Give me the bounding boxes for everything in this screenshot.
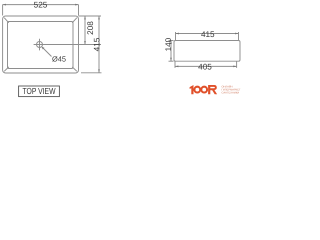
arrow 140 bottom	[170, 58, 172, 61]
svg-text:Ø45: Ø45	[52, 55, 66, 64]
top extension line to right dims	[79, 15, 102, 17]
arrow 415 bottom (left view)	[98, 69, 100, 72]
logo small text lines	[222, 85, 241, 95]
dim 140 top extension	[169, 40, 174, 42]
TOP VIEW label box	[19, 86, 60, 97]
corner diagonal top-left	[4, 18, 9, 23]
arrow 415 top (left view)	[98, 16, 100, 19]
dim 415 left extension (side)	[175, 32, 177, 40]
arrow 405 right	[233, 66, 236, 68]
dim 525 line	[3, 4, 79, 6]
side view rect	[174, 41, 240, 62]
drain circle	[37, 42, 43, 48]
arrow 405 left	[175, 66, 178, 68]
drain centerline horizontal (extension to dims)	[34, 44, 101, 46]
arrow 415 right (side)	[235, 33, 238, 35]
dim 525 left extension	[2, 5, 4, 16]
logo 100R: digit 1	[190, 85, 194, 94]
dim 405 right extension	[236, 62, 238, 68]
arrow 525 left	[3, 4, 6, 6]
svg-text:САНТЕХНИКИ: САНТЕХНИКИ	[222, 92, 240, 95]
corner diagonal top-right	[72, 18, 77, 23]
logo 100R: digit 0 first	[194, 87, 200, 93]
arrow 208 bottom	[84, 41, 86, 44]
dim 415 line (left view)	[98, 16, 100, 73]
dim 405 line	[175, 65, 237, 67]
corner diagonal bottom-left	[4, 67, 9, 71]
drain crosshair vertical	[39, 39, 41, 51]
bottom extension line	[81, 72, 102, 74]
inner bowl	[8, 22, 74, 69]
dim 405 left extension	[174, 62, 176, 68]
dim 415 line (side view)	[176, 33, 239, 35]
dim 525 right extension	[78, 5, 80, 16]
arrow 415 left (side)	[176, 33, 179, 35]
logo 100R: digit 0 second	[201, 87, 207, 93]
svg-text:415: 415	[201, 30, 215, 39]
outer rim (top view basin)	[3, 16, 79, 73]
svg-text:405: 405	[198, 62, 212, 71]
arrow 208 top	[84, 16, 86, 19]
leader line for drain label	[42, 47, 52, 57]
svg-text:525: 525	[34, 1, 48, 10]
arrow 525 right	[75, 4, 78, 6]
dim 140 bottom extension	[169, 60, 174, 62]
dim 208 line	[84, 16, 86, 45]
dim 140 line	[170, 41, 172, 62]
dim 415 right extension (side)	[238, 32, 240, 40]
svg-text:140: 140	[164, 37, 173, 51]
arrow 140 top	[170, 41, 172, 44]
svg-text:TOP VIEW: TOP VIEW	[23, 86, 57, 96]
arrow leader drain	[42, 47, 44, 49]
svg-text:415: 415	[92, 37, 101, 51]
logo 100R: letter R	[208, 85, 217, 94]
corner diagonal bottom-right	[72, 67, 77, 71]
svg-text:208: 208	[86, 21, 95, 35]
